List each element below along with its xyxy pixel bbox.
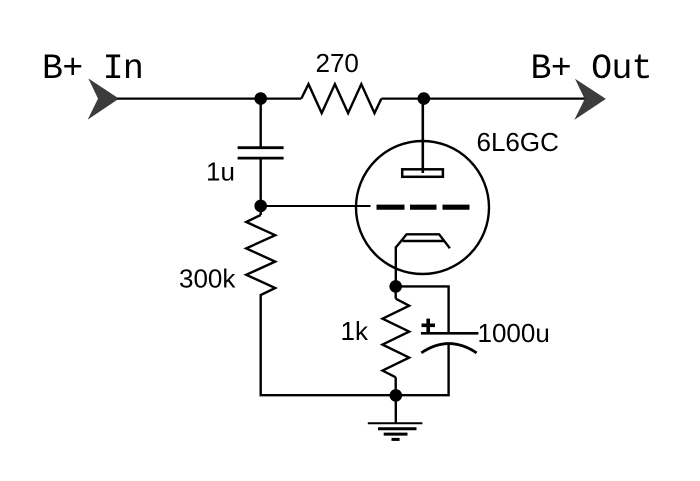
wire: capacitor 1000u bottom to node E bbox=[396, 345, 449, 396]
wire: B+ In to node A bbox=[117, 97, 261, 99]
node C (grid junction) bbox=[254, 200, 267, 213]
resistor 270 bbox=[301, 84, 381, 113]
node E (ground junction) bbox=[390, 389, 403, 402]
svg-text:1000u: 1000u bbox=[478, 318, 550, 348]
wire: cathode down to node D bbox=[395, 247, 397, 287]
svg-text:B+ Out: B+ Out bbox=[531, 49, 652, 89]
wire: capacitor 1u down to node C bbox=[260, 158, 262, 206]
wire: node D to capacitor 1000u top bbox=[396, 286, 449, 333]
tube envelope 6L6GC bbox=[356, 141, 489, 274]
wire: resistor 270 to node B bbox=[381, 97, 423, 99]
input arrow (B+ In) bbox=[88, 78, 119, 119]
svg-text:1k: 1k bbox=[341, 316, 369, 346]
wire: node A to resistor R 270 bbox=[261, 97, 302, 99]
node A (input junction) bbox=[254, 92, 267, 105]
tube grid (dashed) bbox=[377, 205, 470, 210]
wire: node B down to tube anode bbox=[421, 99, 424, 173]
tube anode plate bbox=[402, 169, 443, 177]
wire: resistor 300k down to bottom rail bbox=[261, 299, 396, 395]
output arrow (B+ Out) bbox=[574, 79, 606, 120]
svg-text:6L6GC: 6L6GC bbox=[477, 127, 559, 157]
capacitor 1000u bbox=[421, 333, 479, 353]
resistor 1k bbox=[383, 286, 410, 395]
ground bbox=[368, 423, 423, 439]
resistor 300k bbox=[246, 206, 275, 299]
wire: node B to B+ Out arrow bbox=[424, 97, 586, 99]
plus sign (1000u polarity) bbox=[422, 319, 436, 332]
wire: node A down to capacitor C 1u bbox=[260, 99, 262, 148]
capacitor 1u bbox=[238, 148, 284, 158]
node B (output junction) bbox=[418, 92, 431, 105]
wire: node E down to ground bbox=[395, 395, 397, 423]
svg-text:1u: 1u bbox=[206, 157, 235, 187]
tube cathode bbox=[396, 234, 450, 248]
svg-text:300k: 300k bbox=[179, 264, 236, 294]
node D (cathode junction) bbox=[389, 280, 402, 293]
wire: node C to tube grid bbox=[261, 205, 371, 207]
svg-text:270: 270 bbox=[316, 48, 359, 78]
